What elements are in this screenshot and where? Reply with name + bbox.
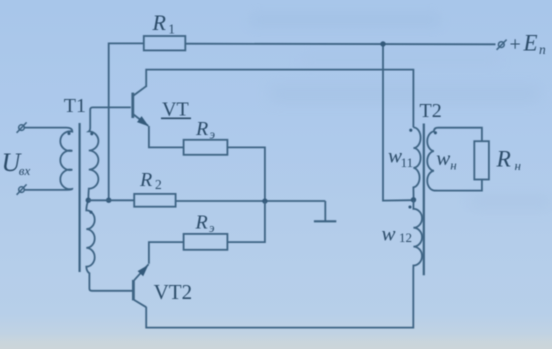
svg-text:н: н — [515, 158, 521, 173]
wire: VT collector rail to T2 w11 top — [146, 70, 413, 128]
label R1 — [152, 10, 175, 36]
transformer T2 winding wn + leads to Rn — [427, 128, 482, 191]
resistor R2 — [134, 194, 175, 207]
wire: Re1 to divider junction — [227, 147, 265, 201]
svg-text:н: н — [450, 158, 456, 173]
svg-text:1: 1 — [168, 21, 175, 36]
node: junction top rail / supply drop — [380, 41, 385, 46]
svg-text:11: 11 — [401, 155, 414, 170]
label w12 — [382, 222, 413, 246]
svg-text:+: + — [510, 33, 521, 55]
transformer T2 winding w11 — [413, 127, 420, 199]
resistor Re1 — [184, 140, 228, 155]
svg-text:э: э — [210, 127, 216, 141]
terminal input bottom — [17, 184, 27, 194]
resistor Re2 — [184, 234, 228, 250]
node: T2 centre tap — [411, 197, 416, 202]
transformer T1 core — [78, 123, 80, 272]
wire: R2 to ground — [176, 200, 326, 202]
polarity dot T1 secondary upper — [90, 132, 93, 135]
polarity dot T1 primary — [67, 132, 70, 135]
polarity dot T2 w11 — [409, 129, 412, 132]
transistor VT2 collector lead — [134, 300, 146, 307]
svg-text:R: R — [496, 147, 511, 173]
wire: bottom rail VT2 collector to w12 bottom — [146, 269, 413, 328]
transformer T1 secondary upper + base wire to VT — [88, 107, 131, 199]
resistor Rn (load) — [474, 141, 489, 179]
node: divider to centre tap — [106, 198, 111, 203]
label +En — [510, 31, 547, 58]
svg-text:T2: T2 — [420, 100, 442, 122]
terminal input top — [17, 122, 27, 132]
transformer T1 primary winding — [24, 128, 72, 190]
transistor VT emitter arrow — [137, 116, 149, 126]
label wn — [436, 146, 456, 172]
label w11 — [388, 144, 413, 170]
label Re2 — [195, 212, 216, 236]
transistor VT2 base bar — [132, 280, 135, 301]
wire: Re2 to VT2 emitter — [149, 242, 184, 264]
node: T1 centre tap — [86, 198, 91, 203]
faint bleed-through smudges from photo — [250, 14, 440, 26]
wire: +Ep top rail with corner down to divider — [109, 43, 144, 200]
svg-text:VT2: VT2 — [154, 280, 193, 304]
wire: junction down to Re2 — [227, 201, 265, 242]
polarity dot T1 secondary lower — [89, 211, 92, 214]
transformer T2 core — [423, 124, 425, 276]
svg-text:w: w — [382, 222, 396, 246]
transistor VT emitter lead — [133, 114, 148, 125]
wire: supply drop to T2 centre tap — [383, 44, 412, 201]
ground — [314, 201, 336, 221]
svg-text:R: R — [139, 169, 152, 191]
label Rn — [496, 147, 521, 173]
transformer T1 secondary lower + base wire to VT2 — [86, 201, 132, 291]
node: R2 / Re junction — [262, 198, 267, 203]
terminal +Ep — [497, 40, 507, 50]
label R2 — [139, 169, 162, 192]
svg-text:R: R — [152, 10, 167, 35]
svg-text:VT: VT — [162, 99, 189, 121]
polarity dot T2 wn — [434, 131, 437, 134]
svg-text:2: 2 — [155, 177, 162, 192]
wire: VT emitter to Re1 — [149, 126, 184, 147]
svg-text:R: R — [195, 118, 208, 140]
resistor R1 — [144, 36, 186, 50]
transistor VT2 emitter arrow — [138, 265, 149, 277]
svg-text:R: R — [195, 212, 208, 234]
svg-text:э: э — [209, 221, 215, 235]
label Re1 — [195, 118, 216, 141]
svg-text:E: E — [523, 31, 538, 56]
transistor VT base bar — [131, 93, 134, 118]
transistor VT collector lead — [133, 86, 146, 95]
svg-text:п: п — [539, 42, 546, 57]
transistor VT2 emitter lead — [134, 264, 148, 280]
svg-text:вх: вх — [19, 163, 31, 178]
wire: centre tap to R2 — [88, 199, 134, 201]
svg-text:w: w — [436, 146, 450, 170]
transformer T2 winding w12 — [413, 201, 422, 270]
svg-text:12: 12 — [399, 230, 412, 245]
svg-text:T1: T1 — [64, 95, 86, 117]
polarity dot T2 w12 — [408, 205, 411, 208]
label Uvx — [2, 148, 31, 178]
wire: rail from R1 right to +Ep terminal — [185, 43, 495, 46]
